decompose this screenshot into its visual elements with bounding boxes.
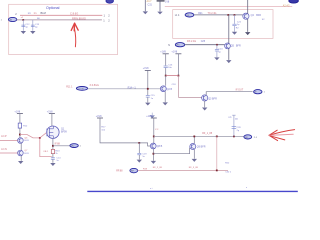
label C6	[151, 95, 156, 100]
label C8	[142, 153, 147, 158]
svg-text:R14—1: R14—1	[128, 86, 137, 89]
svg-text:+1V8: +1V8	[171, 51, 177, 54]
svg-text:RF_1_88: RF_1_88	[202, 132, 213, 135]
label stub b	[237, 127, 242, 132]
svg-text:A4.7: A4.7	[147, 0, 153, 3]
wire M1 collector	[165, 76, 167, 86]
svg-text:+1V8: +1V8	[96, 115, 102, 118]
supply bar L2	[49, 114, 55, 127]
svg-text:LO IN: LO IN	[78, 88, 84, 90]
svg-text:X.0.8GG: X.0.8GG	[90, 84, 99, 87]
optional dashed box	[9, 4, 118, 54]
ground GND5	[232, 32, 237, 35]
svg-text:BFR: BFR	[236, 44, 241, 47]
ground GND3	[143, 11, 148, 14]
wire out row	[53, 145, 70, 147]
wire M2 emitter	[204, 101, 206, 107]
transistor QC2	[190, 144, 196, 150]
svg-text:+1V8: +1V8	[160, 51, 166, 54]
ground GND15	[137, 160, 142, 163]
wire R1 to J	[19, 128, 21, 138]
port P5	[254, 90, 262, 94]
label C5	[168, 64, 173, 69]
label QL1	[24, 137, 29, 142]
capacitor C3	[232, 24, 236, 25]
thick blue line	[87, 190, 297, 192]
svg-text:LO.N: LO.N	[1, 148, 7, 151]
svg-text:Q3 BFR: Q3 BFR	[208, 97, 217, 100]
svg-text:LO.P: LO.P	[1, 135, 7, 138]
wire base QC1	[139, 143, 150, 146]
wire C7 gnd	[52, 159, 54, 162]
label Q2	[231, 44, 241, 47]
label C3	[237, 22, 242, 27]
wire pink top rail	[165, 6, 292, 8]
junction J10	[52, 145, 54, 147]
ground GND9	[145, 103, 150, 106]
resistor R1	[18, 123, 21, 128]
label R2	[55, 150, 60, 155]
junction J11	[138, 142, 140, 144]
wire Q1 emitter	[247, 19, 249, 32]
svg-text:R21: R21	[198, 12, 203, 15]
top right box	[173, 10, 273, 39]
transistor Q1	[243, 13, 249, 19]
capacitor C8	[137, 153, 141, 155]
ground GND7	[214, 57, 219, 60]
svg-text:+1V8: +1V8	[14, 110, 20, 113]
capacitor C9	[232, 127, 237, 129]
transistor QL2	[18, 150, 24, 156]
transistor Q2	[225, 43, 231, 49]
wire cap to gnd	[234, 26, 236, 32]
wire QC2 collector	[193, 136, 195, 143]
svg-text:N: N	[168, 44, 170, 47]
antenna stub wire	[233, 115, 235, 136]
svg-text:IF.OUT: IF.OUT	[236, 88, 244, 91]
supply bar L1	[17, 114, 23, 123]
mosfet M3	[47, 126, 59, 138]
svg-text:V.C: V.C	[155, 129, 159, 131]
junction J13	[153, 153, 155, 155]
wire M3 source	[52, 138, 54, 149]
label C7	[56, 157, 61, 162]
supply bar C1b	[97, 118, 139, 143]
svg-text:A2.4G: A2.4G	[283, 4, 290, 7]
wire J11 down	[138, 143, 140, 153]
supply bar A	[163, 54, 169, 66]
wire red rail mid	[166, 75, 179, 77]
wire Q2 emitter	[228, 49, 230, 60]
svg-text:C25: C25	[201, 40, 206, 43]
capacitor C1	[21, 25, 25, 26]
label near C1b	[101, 127, 106, 132]
label Q1	[251, 14, 262, 17]
ground GND13	[18, 161, 23, 164]
junction J14	[193, 136, 195, 138]
svg-text:TX.2.4G: TX.2.4G	[208, 12, 217, 15]
ground GND4	[157, 12, 162, 15]
wire row2	[17, 19, 102, 21]
svg-text:RX.2.4G: RX.2.4G	[187, 40, 196, 43]
label C2 value	[35, 24, 40, 29]
svg-text:RF_3_88: RF_3_88	[189, 167, 199, 169]
label C4	[218, 49, 223, 54]
label C1 value	[25, 24, 30, 29]
svg-text:R11 1: R11 1	[66, 85, 73, 88]
junction J4	[216, 44, 218, 46]
ground GND12	[202, 108, 207, 111]
wire main line	[154, 135, 244, 137]
svg-text:IF.88: IF.88	[55, 143, 61, 146]
wire Q2 collector	[228, 15, 230, 43]
wire B down	[177, 76, 179, 98]
transistor M2	[202, 95, 208, 101]
wire QL1 base red	[0, 139, 18, 141]
ground GND16	[151, 161, 156, 164]
wire bottom row	[138, 169, 228, 171]
svg-text:FB.1: FB.1	[44, 151, 49, 153]
port P1	[8, 17, 16, 21]
svg-text:x1 4: x1 4	[175, 14, 180, 17]
port top right cut	[289, 0, 299, 3]
junction J17	[216, 170, 218, 172]
svg-text:BF99: BF99	[61, 131, 67, 134]
capacitor C7	[51, 158, 55, 159]
wire cap branch box	[234, 15, 236, 24]
ground GND14	[50, 163, 55, 166]
wire box row	[194, 14, 243, 16]
junction J5	[165, 75, 167, 77]
transistor QC1	[150, 143, 156, 149]
wire red net path	[20, 133, 52, 157]
junction J12	[153, 136, 155, 138]
wire QL2 emitter	[20, 156, 22, 161]
svg-text:C31: C31	[148, 3, 153, 6]
wire M2 base horiz	[178, 96, 201, 98]
wire QC1 emitter	[152, 149, 154, 161]
svg-text:1V8: 1V8	[165, 1, 170, 4]
wire cap branch row2tr	[216, 45, 218, 50]
junction J2	[227, 14, 229, 16]
supply bar B	[175, 54, 181, 76]
wire QL1-QL2	[20, 143, 22, 150]
wire cap branch 2	[32, 20, 34, 31]
ground GND1	[21, 31, 26, 34]
stub top tick	[232, 114, 235, 116]
label M3	[61, 128, 67, 134]
wire NET1 row1	[20, 14, 102, 16]
svg-text:Q9 BFR: Q9 BFR	[197, 145, 206, 148]
wire QL2 base red	[0, 152, 18, 154]
svg-text:RX: RX	[177, 45, 181, 47]
ground GND6	[245, 32, 250, 35]
junction J3	[234, 14, 236, 16]
wire QC2 emitter	[193, 149, 195, 158]
wire C6 gnd	[147, 97, 149, 102]
svg-text:Q8 B: Q8 B	[157, 145, 163, 148]
port top middle cut	[106, 0, 114, 3]
wire M2 collector	[206, 92, 252, 96]
wire gnd stub B	[159, 1, 161, 11]
svg-text:+1V8: +1V8	[146, 115, 152, 118]
svg-text:BFR: BFR	[256, 14, 261, 17]
ground GND10	[163, 102, 168, 105]
ground GND8	[226, 60, 231, 63]
wire gnd stub A	[144, 0, 146, 11]
transistor QL1	[18, 138, 24, 144]
port P3	[175, 43, 184, 47]
port P2	[185, 13, 194, 17]
wire M1 emitter	[164, 91, 166, 102]
label QL2	[24, 150, 29, 155]
wire QC2 base	[153, 148, 189, 154]
annotation arrow up	[71, 23, 78, 47]
wire cap branch 1	[22, 20, 24, 31]
svg-text:RF_2_88: RF_2_88	[153, 167, 163, 169]
svg-text:RF.88: RF.88	[116, 170, 123, 173]
junction J8	[19, 134, 21, 136]
annotation arrow left	[269, 130, 295, 141]
junction J6	[178, 75, 180, 77]
ground GND17	[192, 159, 197, 162]
capacitor C4	[215, 50, 219, 51]
resistor R2	[51, 149, 54, 153]
capacitor C2	[31, 25, 35, 26]
wire C4 gnd	[216, 51, 218, 57]
wire row2tr	[185, 44, 225, 46]
ground GND11 floating	[150, 113, 155, 119]
junction J7	[147, 88, 149, 90]
junction J15	[216, 136, 218, 138]
svg-text:Optional: Optional	[46, 6, 60, 10]
wire C8 gnd	[138, 155, 140, 159]
svg-text:Q2 B: Q2 B	[167, 88, 173, 91]
capacitor C5	[164, 66, 168, 68]
port P4	[76, 87, 87, 91]
wire Q1 collector	[247, 0, 249, 14]
wire mid row	[88, 88, 161, 90]
svg-text:+1V8: +1V8	[143, 67, 149, 70]
junction J16	[233, 136, 235, 138]
svg-text:C30 1: C30 1	[225, 172, 232, 174]
ground GND2	[30, 31, 35, 34]
junction J9	[39, 137, 41, 139]
port P7	[244, 135, 252, 139]
wire C5 down	[165, 68, 167, 76]
capacitor C6	[146, 96, 150, 98]
supply bar top cut	[157, 0, 165, 2]
wire R2 down	[52, 154, 54, 158]
wire down link	[216, 136, 218, 170]
supply bar C	[145, 70, 151, 95]
port P8	[130, 168, 138, 172]
supply bar C2b	[151, 118, 157, 143]
junction J1	[22, 19, 24, 21]
port P6	[70, 144, 78, 148]
svg-text:+1V8: +1V8	[47, 110, 53, 113]
transistor M1	[160, 86, 166, 92]
